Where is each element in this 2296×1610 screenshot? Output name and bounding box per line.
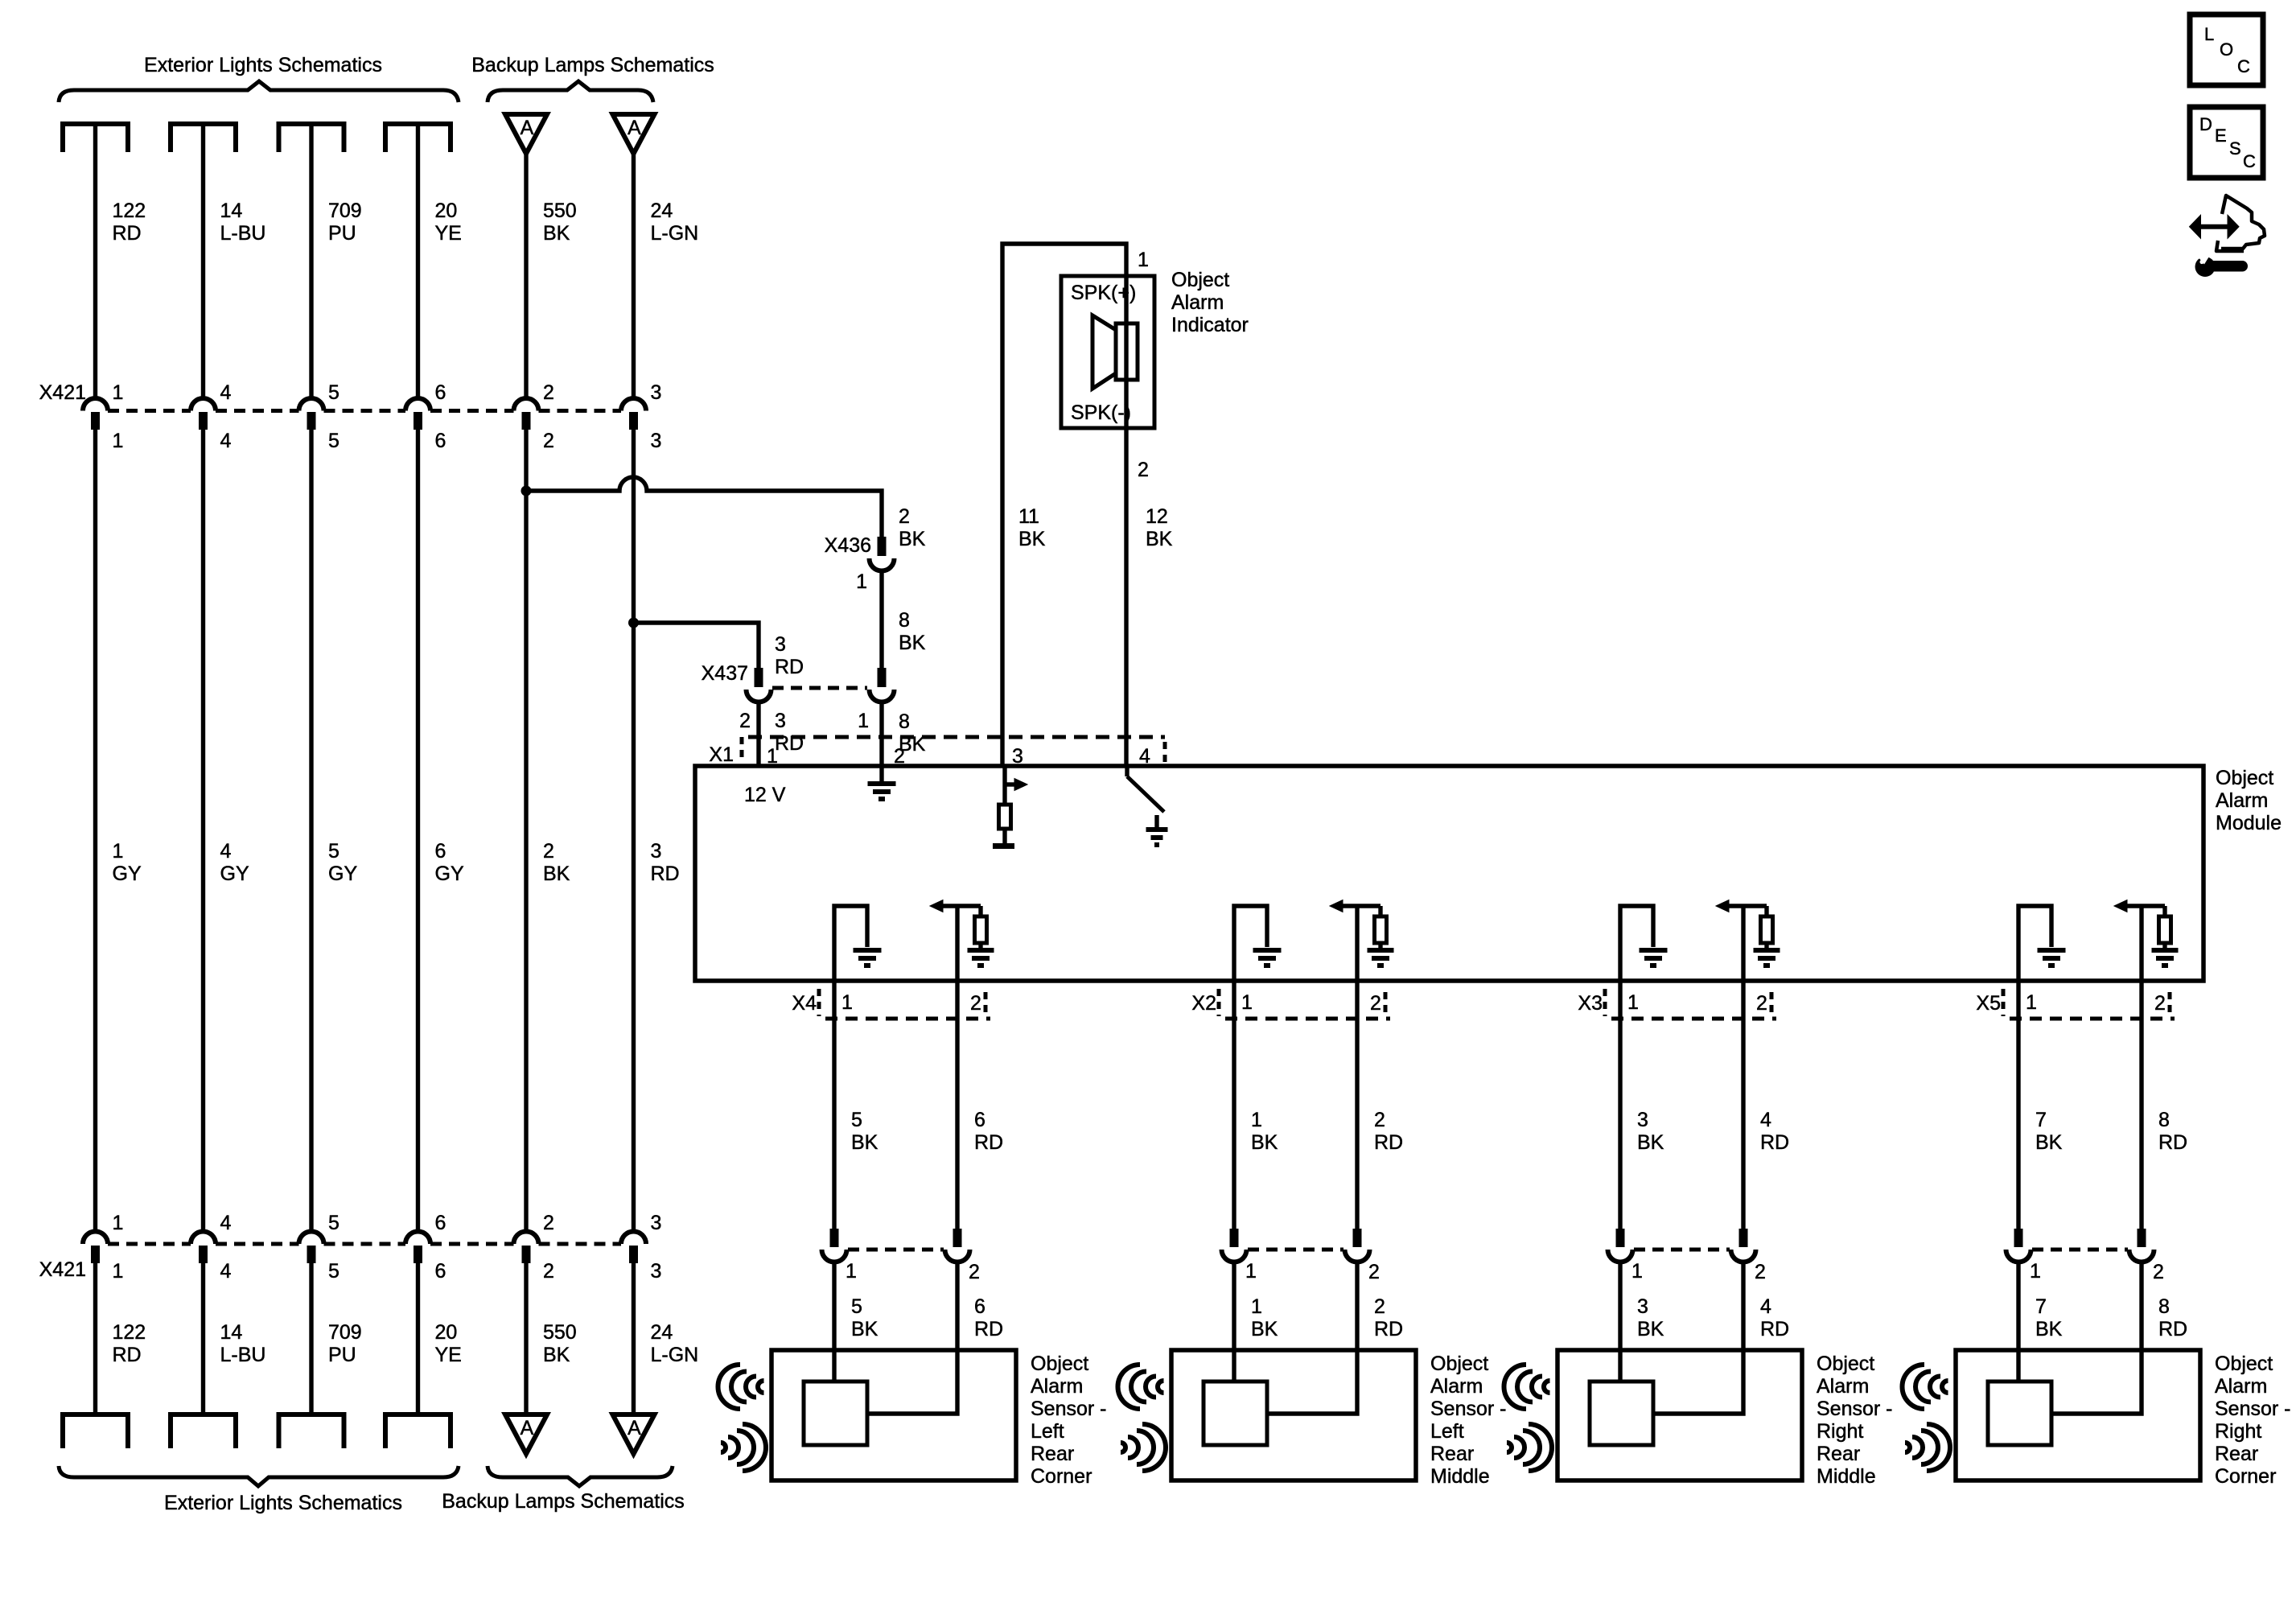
svg-text:GY: GY (113, 863, 142, 885)
svg-text:C: C (2237, 56, 2250, 76)
module internal ground at X1 pin 4 (1154, 815, 1158, 827)
wire 5 BK (connector to sensor) (832, 1262, 836, 1381)
svg-text:A: A (521, 1417, 534, 1439)
sensor connector pin 1 pin (1230, 1229, 1239, 1247)
svg-text:6: 6 (435, 1212, 446, 1234)
connector A triangle (top) circuit 24 L-GN (613, 114, 655, 154)
svg-text:Alarm: Alarm (1031, 1375, 1083, 1398)
svg-text:BK: BK (1018, 528, 1046, 550)
wire 14 L-BU (top segment) (201, 124, 205, 399)
svg-text:Alarm: Alarm (1171, 291, 1224, 314)
svg-text:BK: BK (2035, 1318, 2063, 1340)
Object Alarm Module box (695, 766, 2203, 981)
module internal ground under resistor at X4 pin 2 (968, 948, 994, 953)
connector X421 pin 6 (bottom row) socket arc (405, 1232, 430, 1245)
off-page terminal (top) circuit 14 L-BU (171, 121, 236, 126)
wire X5 pin 2 inside module (2139, 906, 2143, 981)
svg-text:BK: BK (1637, 1131, 1664, 1154)
wire 7 BK (connector to sensor) (2016, 1262, 2020, 1381)
wire 14 L-BU (bottom segment) (201, 1263, 205, 1414)
wire X2 pin 2 inside module (1355, 906, 1359, 981)
svg-text:14: 14 (220, 200, 243, 222)
svg-text:2: 2 (899, 505, 910, 528)
svg-text:Sensor -: Sensor - (1817, 1398, 1892, 1420)
svg-text:Exterior Lights Schematics: Exterior Lights Schematics (144, 54, 382, 76)
svg-text:Middle: Middle (1430, 1465, 1490, 1488)
connector X5 dashed outline left tick (2002, 989, 2006, 1016)
connector X421 pin 4 (top row) socket arc (191, 398, 216, 410)
connector X1 dashed mating line (748, 735, 1165, 739)
svg-text:RD: RD (775, 656, 804, 678)
svg-text:S: S (2229, 138, 2241, 159)
wire 8 RD (connector to sensor) (2051, 1262, 2142, 1414)
svg-text:2: 2 (970, 992, 981, 1015)
double-headed arrow icon (2199, 224, 2228, 229)
wire 2 RD (X2 to sensor connector) (1355, 981, 1359, 1229)
svg-text:BK: BK (1251, 1131, 1278, 1154)
connector X2 dashed mating line (1225, 1017, 1390, 1021)
wire 5 BK (X4 to sensor connector) (832, 981, 836, 1229)
connector X421 pin 2 (top row) pin (522, 412, 531, 430)
svg-text:2: 2 (2154, 992, 2166, 1015)
wire 2 RD (connector to sensor) (1267, 1262, 1357, 1414)
wrench icon (2195, 257, 2249, 277)
svg-text:1: 1 (1631, 1260, 1643, 1283)
svg-text:5: 5 (328, 840, 339, 863)
svg-text:1: 1 (841, 991, 853, 1014)
svg-text:X5: X5 (1976, 992, 2001, 1015)
svg-text:4: 4 (220, 1260, 232, 1283)
wire circuit 6 GY (long vertical) (416, 430, 420, 1232)
svg-text:3: 3 (1637, 1109, 1648, 1131)
svg-text:122: 122 (113, 1321, 146, 1344)
connector X3 dashed outline right tick (1770, 992, 1774, 1013)
vehicle outline icon (2221, 196, 2265, 249)
svg-text:1: 1 (1251, 1109, 1262, 1131)
svg-text:1: 1 (113, 381, 124, 404)
svg-text:RD: RD (2158, 1131, 2187, 1154)
Object Alarm Sensor box (X2) (1171, 1350, 1416, 1480)
svg-text:Object: Object (1171, 269, 1229, 291)
svg-text:RD: RD (113, 222, 142, 245)
svg-text:709: 709 (328, 200, 362, 222)
connector X5 dashed mating line (2010, 1017, 2175, 1021)
svg-text:BK: BK (1251, 1318, 1278, 1340)
svg-text:O: O (2220, 39, 2233, 60)
sensor connector pin 1 pin (2014, 1229, 2023, 1247)
svg-text:L-BU: L-BU (220, 1344, 266, 1366)
module internal drive arrow at X4 pin 2 (941, 904, 981, 908)
svg-text:Sensor -: Sensor - (2215, 1398, 2290, 1420)
brace top Exterior Lights (59, 81, 459, 102)
svg-text:3: 3 (775, 633, 786, 656)
svg-text:Indicator: Indicator (1171, 314, 1249, 336)
svg-text:L-BU: L-BU (220, 222, 266, 245)
wire 550 BK (bottom segment) (524, 1263, 528, 1414)
svg-text:3: 3 (1637, 1295, 1648, 1318)
sensor transducer square (X4) (804, 1381, 867, 1445)
connector X421 pin 4 (top row) pin (199, 412, 208, 430)
svg-text:C: C (2243, 151, 2256, 171)
connector X421 pin 5 (bottom row) pin (307, 1246, 316, 1263)
connector X421 pin 6 (top row) pin (414, 412, 422, 430)
svg-text:Sensor -: Sensor - (1430, 1398, 1506, 1420)
svg-text:Object: Object (2215, 1353, 2273, 1375)
svg-text:Rear: Rear (1430, 1443, 1474, 1465)
wire 709 PU (bottom segment) (309, 1263, 313, 1414)
wire 550 BK (top segment) (524, 153, 528, 399)
svg-text:L-GN: L-GN (651, 222, 699, 245)
off-page terminal (top) circuit 20 YE (385, 121, 451, 126)
wire 24 L-GN (bottom segment) (632, 1263, 636, 1414)
sensor transducer square (X3) (1590, 1381, 1653, 1445)
Object Alarm Indicator box (1061, 276, 1154, 428)
svg-text:4: 4 (220, 430, 232, 452)
svg-text:2: 2 (543, 1260, 554, 1283)
svg-text:BK: BK (899, 528, 926, 550)
svg-text:L: L (2204, 24, 2214, 44)
connector X421 dashed mating line (bottom row) (108, 1242, 191, 1246)
connector X421 pin 2 (bottom row) socket arc (514, 1232, 539, 1245)
svg-text:12: 12 (1146, 505, 1168, 528)
svg-text:550: 550 (543, 200, 577, 222)
svg-text:X3: X3 (1578, 992, 1603, 1015)
brace bottom Exterior Lights (59, 1466, 459, 1486)
svg-text:PU: PU (328, 1344, 356, 1366)
connector X1 dashed outline left tick (740, 737, 744, 763)
Object Alarm Sensor box (X4) (772, 1350, 1016, 1480)
connector A triangle (top) circuit 550 BK (505, 114, 547, 154)
svg-text:8: 8 (899, 609, 910, 632)
connector X421 pin 3 (bottom row) socket arc (621, 1232, 646, 1245)
svg-text:Exterior Lights Schematics: Exterior Lights Schematics (164, 1492, 402, 1514)
svg-text:7: 7 (2035, 1109, 2047, 1131)
svg-text:2: 2 (543, 1212, 554, 1234)
svg-text:5: 5 (851, 1109, 862, 1131)
wire 6 RD (X4 to sensor connector) (955, 981, 959, 1229)
svg-text:122: 122 (113, 200, 146, 222)
wire 12 BK speaker to X1 (1124, 380, 1128, 768)
connector X421 pin 4 (bottom row) pin (199, 1246, 208, 1263)
svg-text:1: 1 (1245, 1260, 1257, 1283)
svg-text:X421: X421 (39, 1258, 86, 1281)
svg-text:6: 6 (435, 1260, 446, 1283)
off-page terminal (bottom) circuit 122 RD (63, 1412, 128, 1417)
svg-text:Middle: Middle (1817, 1465, 1876, 1488)
svg-text:709: 709 (328, 1321, 362, 1344)
wire 3 BK (X3 to sensor connector) (1618, 981, 1622, 1229)
wire 8 BK (X437 to X1) (879, 702, 883, 768)
svg-text:BK: BK (543, 1344, 570, 1366)
wire 4 RD (connector to sensor) (1653, 1262, 1743, 1414)
module internal ground loop at X3 pin 1 (1620, 906, 1653, 981)
connector X3 dashed outline left tick (1603, 989, 1607, 1016)
svg-text:Alarm: Alarm (1430, 1375, 1483, 1398)
ultrasonic waves lower (X2) (1121, 1443, 1125, 1452)
wire 709 PU (top segment) (309, 124, 313, 399)
module internal ground loop at X4 pin 1 (834, 906, 867, 981)
sensor connector dashed mating line (848, 1248, 944, 1252)
module internal resistor at X2 pin 2 (1378, 906, 1382, 916)
svg-text:Object: Object (1430, 1353, 1488, 1375)
sensor connector pin 1 socket (1608, 1250, 1633, 1262)
svg-text:1: 1 (113, 1260, 124, 1283)
svg-text:RD: RD (651, 863, 680, 885)
connector X437 pin 1 (right) socket (870, 690, 895, 702)
module internal ground under resistor at X3 pin 2 (1754, 948, 1780, 953)
svg-text:3: 3 (775, 710, 786, 732)
svg-text:Backup Lamps Schematics: Backup Lamps Schematics (442, 1490, 685, 1513)
svg-text:PU: PU (328, 222, 356, 245)
svg-text:X4: X4 (792, 992, 817, 1015)
svg-text:1: 1 (1251, 1295, 1262, 1318)
connector X437 dashed mating line (772, 686, 867, 690)
connector X421 pin 1 (top row) pin (91, 412, 100, 430)
off-page terminal (top) circuit 709 PU (279, 121, 344, 126)
svg-text:2: 2 (739, 710, 751, 732)
module internal termination bar at X1 pin 3 (993, 843, 1014, 849)
svg-text:Right: Right (2215, 1420, 2261, 1443)
svg-text:2: 2 (1368, 1261, 1380, 1283)
svg-text:X436: X436 (825, 534, 871, 557)
svg-text:1: 1 (113, 840, 124, 863)
DESC reference box (2190, 107, 2263, 178)
svg-text:3: 3 (651, 430, 662, 452)
svg-text:RD: RD (1374, 1318, 1403, 1340)
svg-text:D: D (2199, 114, 2212, 134)
Object Alarm Sensor box (X3) (1557, 1350, 1802, 1480)
svg-text:4: 4 (220, 381, 232, 404)
svg-text:YE: YE (435, 1344, 462, 1366)
connector X421 pin 1 (bottom row) socket arc (83, 1232, 108, 1244)
svg-text:2: 2 (543, 840, 554, 863)
wire circuit 3 RD (long vertical) (632, 430, 636, 1232)
svg-text:5: 5 (328, 430, 339, 452)
svg-text:2: 2 (1755, 1261, 1766, 1283)
svg-text:RD: RD (974, 1318, 1003, 1340)
svg-text:YE: YE (435, 222, 462, 245)
svg-text:2: 2 (1374, 1109, 1385, 1131)
svg-text:GY: GY (220, 863, 249, 885)
svg-text:GY: GY (435, 863, 464, 885)
module internal resistor at X3 pin 2 (1764, 906, 1768, 916)
wire 20 YE (bottom segment) (416, 1263, 420, 1414)
sensor connector pin 1 socket (1222, 1250, 1247, 1262)
svg-text:A: A (627, 117, 641, 139)
svg-text:Rear: Rear (1031, 1443, 1074, 1465)
wire 8 RD (X5 to sensor connector) (2139, 981, 2143, 1229)
svg-text:20: 20 (435, 1321, 458, 1344)
svg-text:5: 5 (851, 1295, 862, 1318)
wire 24 L-GN (top segment) (632, 153, 636, 399)
sensor connector dashed mating line (2032, 1248, 2128, 1252)
connector X5 dashed outline right tick (2168, 992, 2172, 1013)
wire 3 RD (X437 to X1) (756, 702, 760, 768)
svg-text:1: 1 (1138, 249, 1149, 271)
svg-text:A: A (627, 1417, 641, 1439)
svg-text:Corner: Corner (1031, 1465, 1092, 1488)
svg-text:3: 3 (651, 1260, 662, 1283)
svg-text:1: 1 (113, 1212, 124, 1234)
module internal ground loop at X2 pin 1 (1234, 906, 1267, 981)
sensor connector pin 2 pin (2138, 1229, 2146, 1247)
svg-text:Alarm: Alarm (1817, 1375, 1869, 1398)
svg-text:4: 4 (1760, 1295, 1771, 1318)
svg-text:6: 6 (435, 840, 446, 863)
ultrasonic waves lower (X5) (1905, 1443, 1910, 1452)
svg-text:BK: BK (543, 222, 570, 245)
connector X437 pin 2 (left) socket (746, 690, 771, 702)
sensor connector pin 2 socket (2129, 1250, 2154, 1262)
svg-text:1: 1 (2030, 1260, 2041, 1283)
connector X436 socket (870, 558, 895, 571)
svg-text:BK: BK (1637, 1318, 1664, 1340)
svg-text:3: 3 (651, 381, 662, 404)
svg-text:8: 8 (899, 710, 910, 733)
ultrasonic waves lower (X4) (721, 1443, 726, 1452)
svg-text:2: 2 (969, 1261, 980, 1283)
connector X421 pin 5 (top row) socket arc (299, 398, 324, 411)
svg-text:BK: BK (851, 1318, 878, 1340)
wire 1 BK (connector to sensor) (1232, 1262, 1236, 1381)
module internal drive arrow at X5 pin 2 (2125, 904, 2165, 908)
svg-text:SPK(+): SPK(+) (1071, 282, 1136, 304)
svg-text:1: 1 (1241, 991, 1253, 1014)
wire 20 YE (top segment) (416, 124, 420, 399)
wire 7 BK (X5 to sensor connector) (2016, 981, 2020, 1229)
connector A triangle (bottom) circuit 24 L-GN (613, 1414, 655, 1454)
svg-text:Rear: Rear (2215, 1443, 2258, 1465)
wire 6 RD (connector to sensor) (867, 1262, 957, 1414)
wire 3 BK (connector to sensor) (1618, 1262, 1622, 1381)
svg-text:11: 11 (1018, 505, 1039, 528)
svg-text:Corner: Corner (2215, 1465, 2276, 1488)
ultrasonic waves upper (X2) (1118, 1365, 1141, 1409)
svg-text:2: 2 (1138, 459, 1149, 481)
connector X421 pin 3 (top row) pin (629, 412, 638, 430)
wire circuit 5 GY (long vertical) (309, 430, 313, 1232)
wire circuit 4 GY (long vertical) (201, 430, 205, 1232)
off-page terminal (bottom) circuit 20 YE (385, 1412, 451, 1417)
svg-text:Object: Object (1031, 1353, 1088, 1375)
svg-text:Module: Module (2216, 812, 2282, 834)
connector X1 dashed outline right tick (1163, 742, 1167, 764)
wire branch 3 RD to X437 (634, 623, 759, 668)
connector A triangle (bottom) circuit 550 BK (505, 1414, 547, 1454)
sensor transducer square (X5) (1988, 1381, 2051, 1445)
wire 8 BK (X436 to X437) (879, 570, 883, 668)
wire X4 pin 2 inside module (955, 906, 959, 981)
connector X421 dashed mating line (top row) (108, 409, 191, 413)
off-page terminal (top) circuit 122 RD (63, 121, 128, 126)
svg-text:E: E (2215, 126, 2227, 146)
connector X421 pin 6 (top row) socket arc (405, 398, 430, 411)
svg-text:7: 7 (2035, 1295, 2047, 1318)
module internal ground loop at X5 pin 1 (2018, 906, 2051, 981)
svg-text:RD: RD (1760, 1318, 1789, 1340)
wire 122 RD (top segment) (93, 124, 97, 399)
sensor connector pin 1 socket (2006, 1250, 2031, 1262)
wire branch 2 BK to X436 with hop over 24 L-GN (526, 477, 882, 537)
svg-text:BK: BK (899, 632, 926, 654)
connector X421 pin 5 (top row) pin (307, 412, 316, 430)
svg-text:2: 2 (1370, 992, 1381, 1015)
connector X421 pin 1 (top row) socket arc (83, 398, 108, 410)
svg-text:2: 2 (543, 430, 554, 452)
svg-text:1: 1 (856, 570, 867, 593)
svg-text:Sensor -: Sensor - (1031, 1398, 1106, 1420)
connector X421 pin 5 (bottom row) socket arc (299, 1232, 324, 1245)
connector X4 dashed outline left tick (817, 989, 821, 1016)
svg-text:4: 4 (220, 840, 232, 863)
svg-text:Object: Object (2216, 767, 2273, 789)
svg-text:24: 24 (651, 1321, 673, 1344)
svg-text:3: 3 (651, 840, 662, 863)
svg-text:SPK(-): SPK(-) (1071, 401, 1131, 424)
off-page terminal (bottom) circuit 709 PU (279, 1412, 344, 1417)
connector X3 dashed mating line (1611, 1017, 1776, 1021)
connector X421 pin 6 (bottom row) pin (414, 1246, 422, 1263)
connector X421 pin 1 (bottom row) pin (91, 1246, 100, 1263)
ultrasonic waves upper (X3) (1504, 1365, 1527, 1409)
svg-text:Alarm: Alarm (2216, 789, 2268, 812)
svg-text:6: 6 (974, 1109, 985, 1131)
wire 122 RD (bottom segment) (93, 1263, 97, 1414)
svg-text:5: 5 (328, 1260, 339, 1283)
svg-text:Object: Object (1817, 1353, 1874, 1375)
svg-text:3: 3 (651, 1212, 662, 1234)
svg-text:RD: RD (974, 1131, 1003, 1154)
svg-text:5: 5 (328, 381, 339, 404)
wire 4 RD (X3 to sensor connector) (1741, 981, 1745, 1229)
connector X4 dashed outline right tick (984, 992, 988, 1013)
brace top Backup Lamps (488, 81, 653, 102)
wire 1 BK (X2 to sensor connector) (1232, 981, 1236, 1229)
svg-text:BK: BK (1146, 528, 1173, 550)
svg-text:GY: GY (328, 863, 357, 885)
svg-text:12 V: 12 V (744, 784, 786, 806)
sensor connector pin 2 socket (1345, 1250, 1370, 1262)
connector X4 dashed mating line (825, 1017, 990, 1021)
Object Alarm Sensor box (X5) (1956, 1350, 2200, 1480)
brace bottom Backup Lamps (488, 1466, 673, 1486)
LOC reference box (2190, 14, 2263, 85)
module internal resistor at X5 pin 2 (2162, 906, 2166, 916)
sensor connector pin 1 pin (1616, 1229, 1625, 1247)
svg-text:2: 2 (543, 381, 554, 404)
sensor connector pin 2 socket (1731, 1250, 1756, 1262)
sensor connector pin 2 pin (953, 1229, 962, 1247)
svg-text:8: 8 (2158, 1295, 2170, 1318)
sensor connector pin 1 socket (822, 1250, 847, 1262)
svg-text:1: 1 (846, 1260, 857, 1283)
connector X421 pin 3 (top row) socket arc (621, 398, 646, 411)
junction on circuit 3 RD wire (628, 618, 639, 628)
svg-text:4: 4 (220, 1212, 232, 1234)
svg-text:1: 1 (2026, 991, 2037, 1014)
connector X421 pin 2 (top row) socket arc (514, 398, 539, 411)
junction on circuit 2 BK wire (521, 486, 532, 496)
sensor connector dashed mating line (1634, 1248, 1730, 1252)
svg-text:X421: X421 (39, 381, 86, 404)
sensor connector pin 1 pin (830, 1229, 839, 1247)
svg-text:2: 2 (2153, 1261, 2164, 1283)
svg-text:X1: X1 (709, 743, 734, 766)
svg-text:2: 2 (1374, 1295, 1385, 1318)
connector X437 pin 1 (right) pin (878, 668, 887, 687)
connector X437 pin 2 (left) pin (755, 668, 763, 687)
svg-text:BK: BK (851, 1131, 878, 1154)
